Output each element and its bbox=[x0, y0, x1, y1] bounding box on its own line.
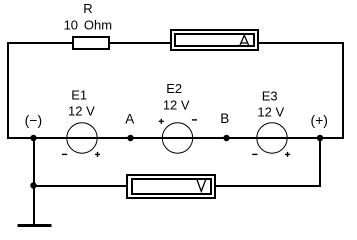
svg-text:B: B bbox=[220, 111, 229, 126]
svg-text:(+): (+) bbox=[310, 112, 328, 128]
wire: bottom horizontal voltmeter branch bbox=[33, 185, 321, 187]
wire: left vertical riser bbox=[7, 42, 9, 139]
voltmeter V bbox=[126, 174, 216, 199]
node B dot bbox=[223, 135, 229, 141]
svg-text:12 V: 12 V bbox=[257, 105, 284, 120]
svg-text:E1: E1 bbox=[71, 87, 87, 102]
node (+) terminal dot bbox=[317, 135, 323, 141]
battery E1 bbox=[62, 123, 100, 157]
wire: top horizontal from left riser to right riser bbox=[7, 42, 344, 44]
resistor R bbox=[72, 36, 110, 50]
svg-text:10: 10 bbox=[64, 17, 78, 32]
node (-) terminal dot bbox=[30, 135, 36, 141]
node A dot bbox=[127, 135, 133, 141]
ground bbox=[18, 224, 52, 227]
svg-text:R: R bbox=[83, 1, 92, 16]
wire: right vertical riser bbox=[342, 42, 344, 139]
svg-text:12 V: 12 V bbox=[68, 103, 95, 118]
svg-text:E3: E3 bbox=[262, 89, 278, 104]
ammeter A bbox=[170, 29, 259, 51]
battery E3 bbox=[252, 123, 290, 157]
battery E2 bbox=[159, 119, 197, 153]
wire: vertical from node (+) down to voltmeter branch bbox=[319, 138, 321, 187]
junction dot at voltmeter branch bbox=[30, 182, 36, 188]
wire: middle horizontal bus bbox=[7, 137, 344, 139]
wire: vertical from node (-) down to ground bbox=[33, 138, 35, 225]
svg-text:Ohm: Ohm bbox=[84, 17, 112, 32]
svg-text:12 V: 12 V bbox=[163, 97, 190, 112]
svg-text:E2: E2 bbox=[166, 81, 182, 96]
svg-text:A: A bbox=[125, 112, 134, 127]
svg-text:(−): (−) bbox=[25, 112, 43, 128]
